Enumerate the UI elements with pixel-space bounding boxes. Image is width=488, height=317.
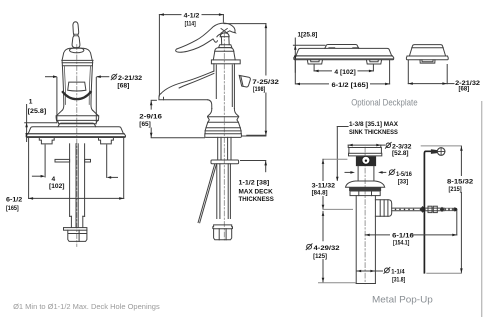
svg-text:4-1/2: 4-1/2 (184, 12, 200, 19)
label 8-15/32 [215] (447, 179, 474, 194)
deck washer (side) (211, 160, 239, 164)
deckplate tabs (front view) (307, 60, 381, 64)
label 4 [102] (deckplate) (334, 69, 355, 76)
label 6-1/16 [154.1] (392, 233, 414, 247)
deckplate (front view, under faucet) (26, 123, 125, 137)
dimension 4 [102] (front shank spacing) (32, 145, 117, 179)
deckplate front view (top right) (294, 45, 394, 60)
dimension Ø1-1/4 [31.8] (tube dia) (357, 270, 383, 273)
handle dome cap (front) (62, 48, 92, 61)
svg-text:1-1/2 [38]: 1-1/2 [38] (239, 180, 270, 187)
right mounting tab under plate (front) (99, 138, 114, 144)
pop-up neck (358, 166, 374, 181)
centerline pop-up (364, 147, 366, 284)
svg-text:4 [102]: 4 [102] (334, 69, 355, 76)
svg-text:[65]: [65] (139, 121, 151, 128)
svg-text:Optional Deckplate: Optional Deckplate (351, 96, 417, 107)
svg-text:[114]: [114] (185, 21, 196, 28)
lift-rod peg (side, right of column) (239, 75, 250, 87)
lift rod (thick) with knob (424, 151, 432, 272)
label 7-25/32 [198] (252, 79, 279, 93)
svg-text:[84.8]: [84.8] (312, 190, 328, 197)
label Ø1-5/16 [33] (389, 169, 412, 185)
label 1[25.8] (298, 32, 318, 39)
label Ø2-21/32 [68] (111, 74, 142, 90)
svg-text:8-15/32: 8-15/32 (447, 179, 474, 186)
shank tubes below deck (side) (218, 137, 231, 160)
svg-text:2-9/16: 2-9/16 (139, 113, 162, 120)
label 2-21/32 [68] (deckplate side) (455, 80, 480, 92)
lift rod knob (431, 148, 445, 156)
dimension 8-15/32 [215] (421, 146, 463, 273)
svg-text:[52.8]: [52.8] (392, 150, 409, 157)
pop-up stopper (dark) (356, 156, 376, 166)
label 1-1/2 [38] MAX DECK THICKNESS (239, 180, 275, 203)
svg-text:2-21/32: 2-21/32 (118, 75, 142, 82)
spout recess window (front) (68, 82, 86, 91)
dimension 6-1/2 [165] (plate width front) (29, 139, 124, 200)
svg-text:4-29/32: 4-29/32 (314, 245, 340, 252)
svg-text:6-1/2: 6-1/2 (6, 197, 23, 204)
dimension 2-9/16 [65] (spout height) (150, 100, 266, 138)
dimension 4-1/2 [114] (side top) (159, 13, 223, 96)
label Ø1-1/4 [31.8] (384, 267, 405, 283)
pop-up lower dome flange (346, 181, 385, 187)
bottom nut (side) (213, 225, 233, 240)
svg-text:[25.8]: [25.8] (28, 108, 47, 115)
faucet body (front) (62, 60, 93, 110)
dimension 6-1/16 [154.1] (365, 210, 457, 236)
collar ring (side) (211, 60, 240, 64)
dimension 4 [102] (deckplate) (314, 64, 373, 72)
label 1 [25.8] (28, 99, 47, 116)
svg-text:THICKNESS: THICKNESS (239, 196, 275, 203)
svg-text:[215]: [215] (449, 186, 462, 193)
svg-text:7-25/32: 7-25/32 (252, 79, 279, 86)
dimension Ø4-29/32 [125] (319, 211, 356, 282)
label 6-1/2 [165] (6, 197, 23, 213)
svg-text:1-3/8 [35.1] MAX: 1-3/8 [35.1] MAX (349, 121, 399, 128)
label 6-1/2 [165] (deckplate) (332, 82, 369, 89)
svg-text:Ø1 Min to Ø1-1/2 Max. Deck Ho: Ø1 Min to Ø1-1/2 Max. Deck Hole Openings (13, 302, 160, 311)
caption Metal Pop-Up (372, 294, 433, 305)
svg-text:1-1/4: 1-1/4 (391, 269, 405, 276)
pivot rod with holes (392, 207, 458, 211)
supply nut (front) (68, 230, 87, 241)
label 3-11/32 [84.8] (312, 183, 336, 197)
dimension Ø2-3/32 [52.8] (flange dia) (348, 144, 384, 148)
label 1-3/8 [35.1] MAX SINK THICKNESS (349, 121, 399, 136)
leader 1-3/8 max sink thickness (336, 127, 348, 182)
dimension 1[25.8] (deckplate height) (293, 38, 325, 72)
dimension 7-25/32 [198] (side height) (224, 24, 267, 136)
pop-up flange (349, 148, 382, 156)
dimension 6-1/2 [165] (deckplate) (295, 61, 389, 86)
label 2-9/16 [65] (139, 113, 162, 128)
caption Optional Deckplate (351, 96, 417, 107)
label 4 [102] (49, 176, 65, 190)
spring clip on rod (420, 206, 445, 213)
centerline front view (76, 45, 78, 247)
svg-text:1[25.8]: 1[25.8] (298, 32, 318, 39)
dimension 2-21/32 [68] (deckplate side) (408, 60, 454, 85)
dimension 1 [25.8] (plate height) (25, 105, 57, 142)
svg-text:6-1/2 [165]: 6-1/2 [165] (332, 82, 369, 89)
svg-text:[154.1]: [154.1] (393, 239, 409, 246)
svg-text:[68]: [68] (459, 85, 470, 92)
svg-text:[102]: [102] (49, 183, 65, 190)
svg-text:Metal Pop-Up: Metal Pop-Up (372, 294, 433, 305)
bottom caption (13, 302, 160, 311)
svg-text:1-5/16: 1-5/16 (396, 171, 412, 178)
ball-rod nut (right of tube) (375, 200, 391, 217)
handle lever (front) (72, 22, 80, 48)
dimension Ø2-21/32 [68] (front width) (46, 75, 109, 122)
label Ø2-3/32 [52.8] (385, 142, 411, 157)
pop-up tailpiece tube (356, 196, 375, 284)
dimension Ø1-5/16 [33] (neck dia) (345, 171, 386, 174)
pump handle (side) (176, 23, 236, 52)
bonnet cap (side) (213, 48, 235, 60)
label 4-1/2 [114] (184, 12, 200, 27)
svg-text:[198]: [198] (253, 86, 265, 93)
deckplate side view (far right) (406, 45, 448, 64)
svg-text:SINK THICKNESS: SINK THICKNESS (349, 129, 398, 136)
svg-text:[165]: [165] (6, 205, 19, 212)
svg-text:4: 4 (52, 176, 56, 183)
svg-text:[68]: [68] (117, 83, 129, 90)
bonnet stem (side) (219, 33, 232, 48)
label Ø4-29/32 [125] (306, 244, 340, 260)
svg-text:[125]: [125] (313, 253, 327, 260)
left mounting tab under plate (front) (39, 138, 54, 144)
tubes below washer (side) (217, 164, 231, 219)
diagonal lift rod (side) (198, 164, 216, 223)
svg-text:MAX DECK: MAX DECK (239, 189, 273, 196)
svg-text:1: 1 (29, 99, 33, 106)
svg-text:[31.8]: [31.8] (392, 276, 405, 283)
right border line (481, 102, 483, 317)
spout under-arc (front) (63, 92, 91, 99)
svg-text:[33]: [33] (398, 178, 409, 185)
pop-up thread band (dark) (349, 187, 381, 191)
supply nut washer (front) (64, 228, 87, 231)
centerline side view (223, 33, 225, 241)
base bell (side) (205, 109, 242, 138)
handle pivot cross (side) (221, 29, 227, 34)
dimension 3-11/32 [84.8] (322, 159, 353, 209)
dimension 1-1/2 [38] max deck (side) (241, 161, 268, 172)
supply shank tubes (front) (55, 144, 91, 228)
base skirt (front) (56, 110, 99, 124)
pop-up mounting nut (350, 191, 380, 196)
column + spout (side) (159, 64, 235, 109)
